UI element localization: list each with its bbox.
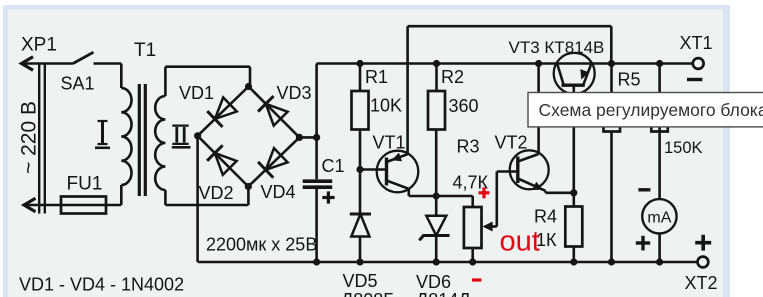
svg-text:XT1: XT1: [680, 33, 713, 53]
svg-text:R3: R3: [457, 137, 480, 157]
svg-text:VD1: VD1: [179, 83, 214, 103]
svg-text:VD2: VD2: [199, 183, 234, 203]
svg-text:VD1 - VD4 - 1N4002: VD1 - VD4 - 1N4002: [19, 275, 184, 295]
svg-text:10K: 10K: [370, 96, 402, 116]
svg-text:T1: T1: [134, 40, 156, 61]
svg-text:VD5: VD5: [343, 271, 378, 291]
svg-text:VT1: VT1: [373, 133, 406, 153]
svg-text:mA: mA: [647, 210, 671, 227]
svg-text:VD3: VD3: [277, 83, 312, 103]
svg-text:360: 360: [449, 96, 479, 116]
svg-text:2200мк х 25В: 2200мк х 25В: [206, 235, 317, 255]
svg-text:R2: R2: [441, 67, 464, 87]
svg-text:XT2: XT2: [685, 273, 718, 293]
svg-text:~ 220 В: ~ 220 В: [18, 101, 41, 174]
svg-text:C1: C1: [322, 156, 345, 176]
svg-text:Схема регулируемого блока: Схема регулируемого блока: [539, 100, 763, 120]
svg-text:150K: 150K: [664, 139, 703, 157]
svg-text:Д808Г: Д808Г: [341, 290, 393, 297]
svg-text:out: out: [500, 226, 540, 258]
svg-text:VT2: VT2: [495, 133, 528, 153]
svg-text:R1: R1: [365, 67, 388, 87]
svg-text:VD6: VD6: [416, 272, 451, 292]
svg-text:FU1: FU1: [67, 174, 103, 195]
svg-text:SA1: SA1: [61, 74, 95, 94]
svg-text:VT3 КТ814В: VT3 КТ814В: [509, 38, 605, 57]
svg-text:Д814Д: Д814Д: [416, 290, 470, 297]
svg-text:VD4: VD4: [261, 182, 296, 202]
svg-text:XP1: XP1: [21, 35, 57, 56]
svg-text:R4: R4: [534, 207, 557, 227]
svg-text:R5: R5: [618, 70, 641, 90]
